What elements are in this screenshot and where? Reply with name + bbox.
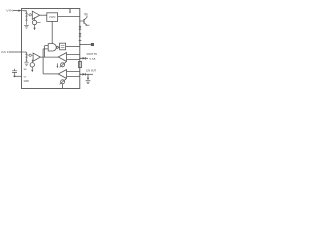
svg-text:GND: GND [24, 80, 30, 83]
svg-text:VIN: VIN [23, 11, 27, 13]
svg-text:IGN IN: IGN IN [1, 50, 10, 54]
svg-text:VIN: VIN [6, 9, 13, 13]
svg-text:0.5A: 0.5A [90, 57, 97, 60]
svg-text:PWM: PWM [49, 15, 55, 19]
svg-text:SS: SS [24, 69, 27, 71]
svg-text:Q1: Q1 [84, 12, 88, 16]
svg-text:12V OUT: 12V OUT [86, 69, 96, 73]
svg-text:CT: CT [24, 77, 28, 79]
svg-text:VOUT 5V: VOUT 5V [87, 52, 98, 56]
